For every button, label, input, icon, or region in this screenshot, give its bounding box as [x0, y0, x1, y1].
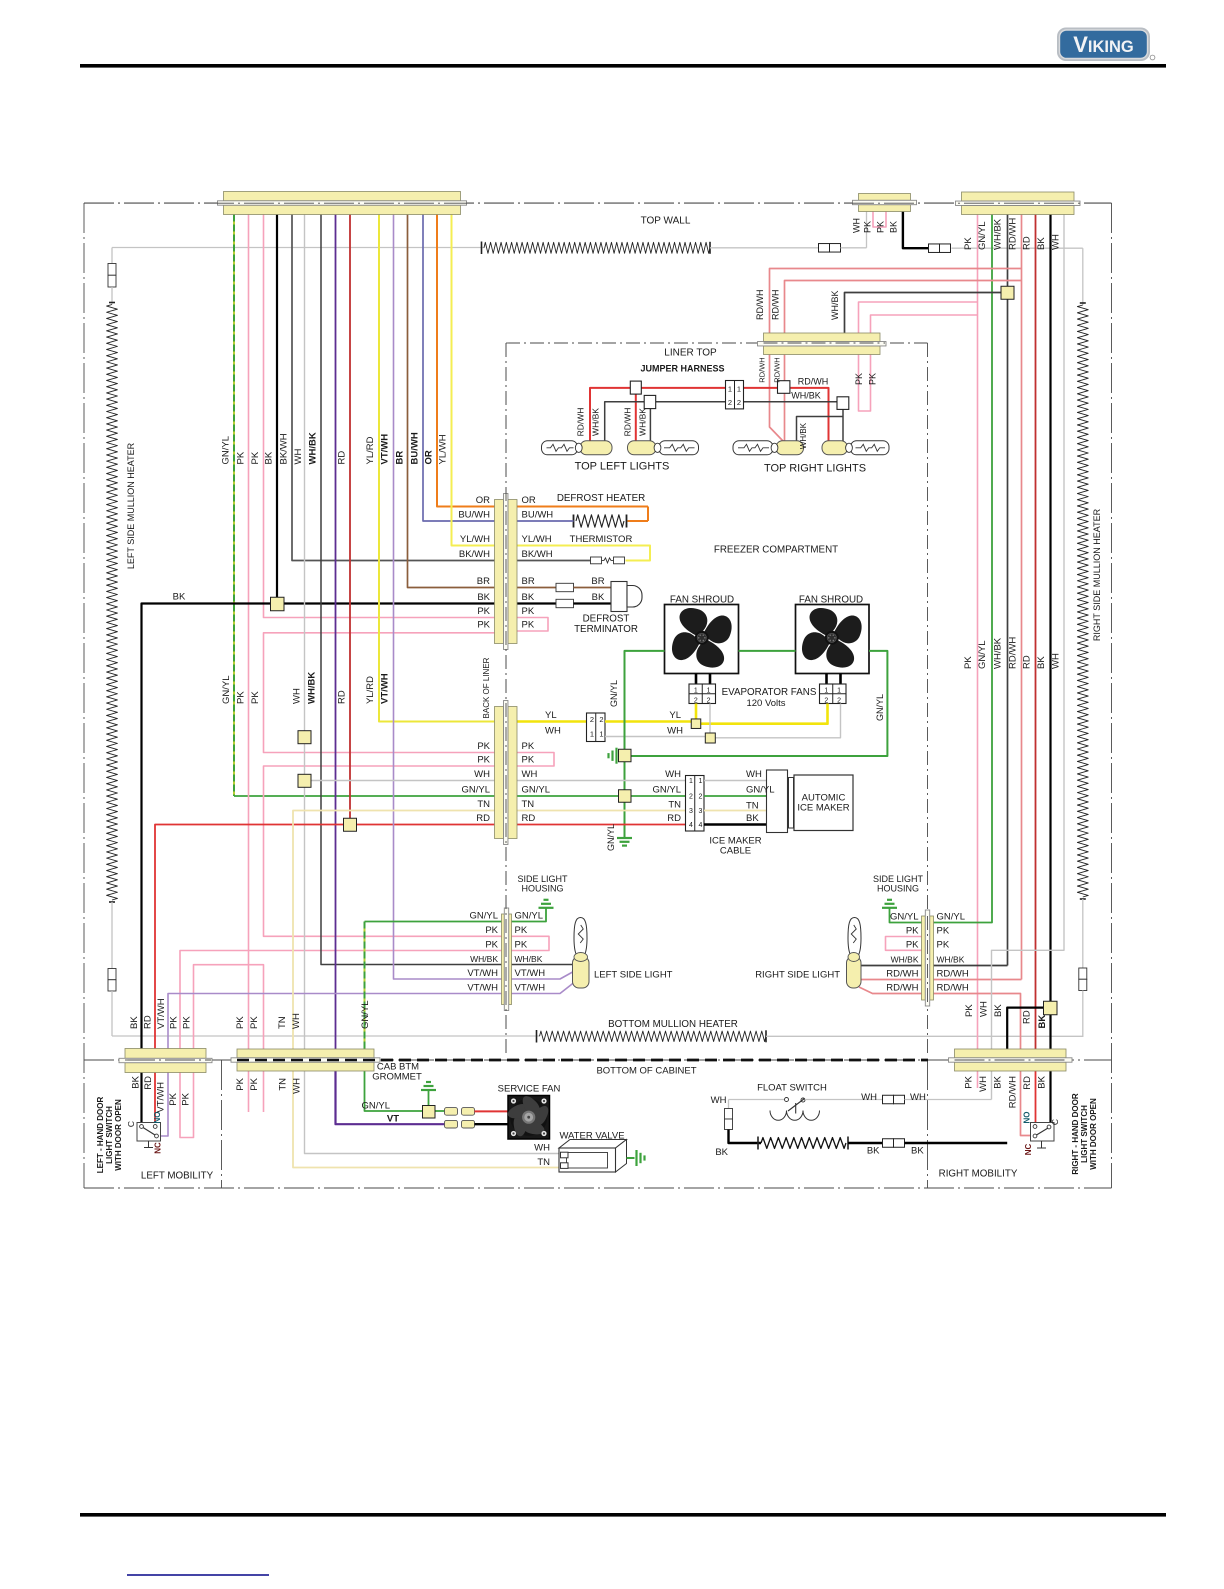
svg-text:WH: WH: [522, 769, 538, 780]
svg-text:YL/WH: YL/WH: [460, 534, 490, 545]
svg-text:GN/YL: GN/YL: [609, 680, 619, 707]
svg-text:GN/YL: GN/YL: [522, 785, 551, 796]
svg-text:RIGHT SIDE MULLION HEATER: RIGHT SIDE MULLION HEATER: [1092, 508, 1102, 641]
svg-text:1: 1: [824, 688, 828, 695]
svg-text:YL: YL: [545, 710, 557, 721]
svg-text:C: C: [126, 1121, 136, 1127]
svg-text:TN: TN: [477, 799, 490, 810]
svg-text:2: 2: [837, 697, 841, 704]
svg-text:WH/BK: WH/BK: [515, 954, 543, 964]
svg-text:DEFROST: DEFROST: [583, 614, 630, 625]
svg-text:GN/YL: GN/YL: [977, 221, 988, 250]
svg-text:WH/BK: WH/BK: [307, 672, 318, 704]
svg-text:WH/BK: WH/BK: [470, 954, 498, 964]
svg-text:1: 1: [737, 385, 741, 394]
svg-text:WH: WH: [861, 1092, 877, 1103]
svg-text:WH: WH: [910, 1092, 926, 1103]
svg-text:VT/WH: VT/WH: [156, 1082, 167, 1113]
svg-text:2: 2: [707, 697, 711, 704]
svg-text:BU/WH: BU/WH: [410, 432, 421, 464]
svg-text:RD: RD: [1022, 655, 1033, 669]
svg-text:PK: PK: [236, 451, 247, 464]
svg-text:2: 2: [728, 398, 732, 407]
svg-text:WATER VALVE: WATER VALVE: [559, 1131, 624, 1142]
svg-text:NO: NO: [1023, 1112, 1032, 1124]
svg-text:1: 1: [599, 730, 603, 739]
svg-text:PK: PK: [876, 221, 886, 233]
svg-text:RD: RD: [1022, 1076, 1033, 1090]
svg-text:PK: PK: [235, 1016, 246, 1029]
svg-text:LINER TOP: LINER TOP: [664, 348, 717, 359]
svg-text:GN/YL: GN/YL: [515, 911, 544, 922]
svg-text:TN: TN: [668, 800, 681, 811]
svg-text:PK: PK: [250, 691, 261, 704]
svg-text:VT/WH: VT/WH: [380, 434, 391, 465]
svg-text:WH: WH: [545, 726, 561, 737]
svg-text:PK: PK: [485, 940, 498, 951]
svg-text:WH/BK: WH/BK: [830, 290, 840, 320]
svg-text:YL/WH: YL/WH: [522, 534, 552, 545]
svg-text:3: 3: [689, 808, 693, 815]
svg-text:WH: WH: [534, 1143, 550, 1154]
svg-text:RD: RD: [337, 690, 348, 704]
svg-text:BR: BR: [395, 451, 406, 465]
svg-text:PK: PK: [854, 373, 864, 385]
svg-text:PK: PK: [249, 1077, 260, 1090]
svg-text:2: 2: [694, 697, 698, 704]
svg-text:BK/WH: BK/WH: [279, 433, 290, 464]
svg-text:WITH DOOR OPEN: WITH DOOR OPEN: [114, 1099, 123, 1171]
svg-text:WH: WH: [1051, 653, 1062, 669]
svg-text:GN/YL: GN/YL: [746, 785, 775, 796]
svg-text:BK: BK: [867, 1146, 880, 1157]
svg-text:PK: PK: [169, 1016, 180, 1029]
svg-text:GN/YL: GN/YL: [875, 694, 885, 721]
svg-text:WH: WH: [852, 218, 862, 233]
svg-text:1: 1: [590, 730, 594, 739]
svg-text:WH: WH: [293, 449, 304, 465]
svg-text:2: 2: [689, 794, 693, 801]
svg-text:WH: WH: [665, 769, 681, 780]
svg-text:120 Volts: 120 Volts: [746, 698, 785, 709]
svg-text:WH: WH: [292, 688, 303, 704]
svg-text:WH: WH: [291, 1013, 302, 1029]
svg-text:TOP LEFT LIGHTS: TOP LEFT LIGHTS: [575, 461, 670, 473]
svg-text:C: C: [1050, 1119, 1060, 1125]
svg-text:RD: RD: [476, 813, 490, 824]
svg-text:TERMINATOR: TERMINATOR: [574, 624, 638, 635]
svg-text:RD: RD: [667, 813, 681, 824]
svg-text:WH: WH: [667, 726, 683, 737]
svg-text:BK: BK: [131, 1075, 142, 1088]
svg-text:RIGHT - HAND DOOR: RIGHT - HAND DOOR: [1071, 1093, 1080, 1175]
svg-text:NC: NC: [154, 1142, 163, 1154]
svg-text:1: 1: [728, 385, 732, 394]
svg-text:BU/WH: BU/WH: [522, 510, 554, 521]
svg-text:2: 2: [824, 697, 828, 704]
svg-text:GN/YL: GN/YL: [361, 1101, 390, 1112]
svg-text:1: 1: [689, 778, 693, 785]
svg-text:BR: BR: [591, 576, 604, 587]
svg-text:RD/WH: RD/WH: [937, 969, 969, 980]
svg-text:WH/BK: WH/BK: [799, 422, 808, 449]
svg-text:2: 2: [599, 715, 603, 724]
svg-text:1: 1: [837, 688, 841, 695]
svg-text:WH: WH: [1051, 234, 1062, 250]
svg-text:4: 4: [699, 822, 703, 829]
svg-text:GN/YL: GN/YL: [360, 1000, 371, 1029]
svg-text:PK: PK: [250, 451, 261, 464]
svg-text:PK: PK: [235, 1077, 246, 1090]
svg-text:VT/WH: VT/WH: [156, 998, 167, 1029]
svg-text:BK: BK: [264, 451, 275, 464]
svg-text:TN: TN: [278, 1078, 289, 1091]
svg-text:PK: PK: [182, 1016, 193, 1029]
svg-text:RD/WH: RD/WH: [576, 408, 586, 437]
svg-text:BK: BK: [1036, 237, 1047, 250]
svg-text:OR: OR: [476, 495, 490, 506]
svg-text:GROMMET: GROMMET: [372, 1072, 422, 1083]
svg-text:WH/BK: WH/BK: [993, 637, 1004, 669]
svg-text:PK: PK: [249, 1016, 260, 1029]
svg-text:PK: PK: [477, 755, 490, 766]
svg-text:PK: PK: [485, 925, 498, 936]
svg-text:RD/WH: RD/WH: [937, 983, 969, 994]
svg-text:WH: WH: [474, 769, 490, 780]
svg-text:WH/BK: WH/BK: [791, 391, 821, 401]
svg-text:BK: BK: [129, 1016, 140, 1029]
svg-text:2: 2: [737, 398, 741, 407]
svg-text:PK: PK: [477, 606, 490, 617]
svg-text:BK: BK: [522, 592, 535, 603]
svg-text:PK: PK: [522, 620, 535, 631]
svg-text:PK: PK: [906, 940, 919, 951]
svg-text:YL/WH: YL/WH: [438, 434, 449, 464]
svg-text:PK: PK: [937, 940, 950, 951]
svg-text:PK: PK: [515, 940, 528, 951]
svg-text:WH/BK: WH/BK: [891, 955, 919, 965]
svg-text:TN: TN: [522, 799, 535, 810]
svg-text:BK: BK: [1037, 1075, 1048, 1088]
svg-text:RD: RD: [522, 813, 536, 824]
svg-text:TOP RIGHT LIGHTS: TOP RIGHT LIGHTS: [764, 463, 866, 475]
svg-text:PK: PK: [963, 237, 974, 250]
svg-text:2: 2: [699, 794, 703, 801]
svg-text:LEFT SIDE MULLION HEATER: LEFT SIDE MULLION HEATER: [126, 442, 136, 569]
svg-text:FAN SHROUD: FAN SHROUD: [799, 595, 863, 606]
svg-text:RD: RD: [337, 451, 348, 465]
svg-text:DEFROST HEATER: DEFROST HEATER: [557, 493, 645, 504]
svg-text:BOTTOM OF CABINET: BOTTOM OF CABINET: [596, 1066, 696, 1077]
svg-text:RD: RD: [143, 1015, 154, 1029]
svg-text:PK: PK: [522, 606, 535, 617]
svg-text:RIGHT MOBILITY: RIGHT MOBILITY: [939, 1169, 1018, 1180]
svg-text:RD/WH: RD/WH: [798, 377, 829, 387]
svg-text:LEFT MOBILITY: LEFT MOBILITY: [141, 1171, 214, 1182]
svg-text:GN/YL: GN/YL: [977, 640, 988, 669]
svg-text:LEFT - HAND DOOR: LEFT - HAND DOOR: [96, 1097, 105, 1174]
svg-text:BOTTOM MULLION HEATER: BOTTOM MULLION HEATER: [608, 1019, 738, 1030]
svg-text:RD: RD: [143, 1076, 154, 1090]
svg-text:BK: BK: [477, 592, 490, 603]
svg-text:RD/WH: RD/WH: [1008, 1076, 1019, 1108]
svg-text:FREEZER COMPARTMENT: FREEZER COMPARTMENT: [714, 545, 838, 556]
svg-text:BR: BR: [522, 576, 535, 587]
svg-text:RD/WH: RD/WH: [755, 290, 765, 321]
svg-text:PK: PK: [937, 926, 950, 937]
svg-text:SIDE LIGHT: SIDE LIGHT: [873, 874, 924, 884]
svg-text:OR: OR: [522, 495, 536, 506]
svg-text:VT/WH: VT/WH: [515, 983, 546, 994]
svg-text:GN/YL: GN/YL: [461, 785, 490, 796]
svg-text:TN: TN: [746, 801, 759, 812]
svg-text:BK/WH: BK/WH: [522, 549, 553, 560]
svg-text:RD: RD: [1022, 1010, 1033, 1024]
svg-text:PK: PK: [868, 373, 878, 385]
svg-text:PK: PK: [863, 221, 873, 233]
svg-text:HOUSING: HOUSING: [877, 884, 919, 894]
svg-text:RD/WH: RD/WH: [623, 408, 633, 437]
svg-text:GN/YL: GN/YL: [890, 912, 919, 923]
svg-text:GN/YL: GN/YL: [221, 675, 232, 704]
svg-text:RD/WH: RD/WH: [886, 969, 918, 980]
svg-text:PK: PK: [964, 1075, 975, 1088]
svg-text:YL/RD: YL/RD: [365, 436, 376, 464]
svg-text:RD/WH: RD/WH: [758, 357, 767, 382]
svg-text:RD: RD: [1022, 236, 1033, 250]
svg-text:BK: BK: [993, 1075, 1004, 1088]
svg-text:PK: PK: [906, 926, 919, 937]
svg-text:RD/WH: RD/WH: [773, 357, 782, 382]
svg-text:PK: PK: [477, 620, 490, 631]
svg-text:WH/BK: WH/BK: [638, 408, 648, 436]
svg-text:1: 1: [694, 688, 698, 695]
svg-text:NC: NC: [1024, 1144, 1033, 1156]
svg-text:RD/WH: RD/WH: [1008, 637, 1019, 669]
svg-text:WITH DOOR OPEN: WITH DOOR OPEN: [1089, 1098, 1098, 1170]
svg-text:BK: BK: [911, 1146, 924, 1157]
svg-text:VT/WH: VT/WH: [380, 673, 391, 704]
svg-text:LIGHT SWITCH: LIGHT SWITCH: [1080, 1105, 1089, 1163]
svg-text:PK: PK: [522, 755, 535, 766]
svg-text:PK: PK: [963, 656, 974, 669]
svg-text:RD/WH: RD/WH: [886, 983, 918, 994]
svg-text:GN/YL: GN/YL: [606, 824, 616, 851]
svg-text:PK: PK: [522, 741, 535, 752]
svg-text:BK/WH: BK/WH: [459, 549, 490, 560]
svg-text:TN: TN: [277, 1016, 288, 1029]
svg-text:EVAPORATOR FANS: EVAPORATOR FANS: [722, 687, 817, 698]
svg-text:RIGHT SIDE LIGHT: RIGHT SIDE LIGHT: [755, 970, 840, 981]
svg-text:WH: WH: [978, 1076, 989, 1092]
svg-text:SERVICE FAN: SERVICE FAN: [498, 1084, 561, 1095]
svg-text:FLOAT SWITCH: FLOAT SWITCH: [757, 1083, 827, 1094]
svg-text:VT: VT: [387, 1114, 399, 1125]
svg-text:1: 1: [707, 688, 711, 695]
svg-text:WH: WH: [979, 1001, 990, 1017]
svg-text:1: 1: [699, 778, 703, 785]
svg-text:SIDE LIGHT: SIDE LIGHT: [517, 874, 568, 884]
svg-text:BK: BK: [1036, 656, 1047, 669]
svg-text:GN/YL: GN/YL: [469, 911, 498, 922]
svg-text:LIGHT SWITCH: LIGHT SWITCH: [105, 1106, 114, 1164]
svg-text:JUMPER HARNESS: JUMPER HARNESS: [640, 364, 724, 374]
svg-text:BR: BR: [477, 576, 490, 587]
svg-text:VT/WH: VT/WH: [515, 968, 546, 979]
svg-text:WH/BK: WH/BK: [591, 408, 601, 436]
svg-text:PK: PK: [477, 741, 490, 752]
svg-text:HOUSING: HOUSING: [521, 884, 563, 894]
svg-text:PK: PK: [515, 925, 528, 936]
svg-text:WH: WH: [292, 1078, 303, 1094]
svg-text:TOP WALL: TOP WALL: [641, 216, 691, 227]
svg-text:PK: PK: [964, 1004, 975, 1017]
svg-text:GN/YL: GN/YL: [937, 912, 966, 923]
svg-text:BK: BK: [993, 1004, 1004, 1017]
svg-text:PK: PK: [236, 691, 247, 704]
svg-text:GN/YL: GN/YL: [221, 436, 232, 465]
svg-text:WH/BK: WH/BK: [993, 218, 1004, 250]
svg-text:BK: BK: [746, 813, 759, 824]
svg-text:FAN SHROUD: FAN SHROUD: [670, 595, 734, 606]
svg-text:BK: BK: [1037, 1015, 1048, 1029]
svg-text:BK: BK: [889, 221, 899, 233]
svg-text:YL: YL: [669, 710, 681, 721]
svg-text:3: 3: [699, 808, 703, 815]
svg-text:4: 4: [689, 822, 693, 829]
svg-text:BU/WH: BU/WH: [458, 510, 490, 521]
svg-text:VT/WH: VT/WH: [467, 968, 498, 979]
svg-text:WH: WH: [746, 769, 762, 780]
svg-text:LEFT SIDE LIGHT: LEFT SIDE LIGHT: [594, 970, 673, 981]
svg-text:GN/YL: GN/YL: [652, 785, 681, 796]
svg-text:TN: TN: [537, 1157, 550, 1168]
svg-text:WH: WH: [711, 1095, 727, 1106]
svg-text:RD/WH: RD/WH: [771, 290, 781, 321]
svg-text:THERMISTOR: THERMISTOR: [570, 534, 633, 545]
svg-text:BK: BK: [592, 592, 605, 603]
svg-text:WH/BK: WH/BK: [308, 432, 319, 464]
svg-text:WH/BK: WH/BK: [937, 955, 965, 965]
svg-text:PK: PK: [181, 1092, 192, 1105]
svg-text:BK: BK: [715, 1147, 728, 1158]
svg-text:ICE MAKER: ICE MAKER: [797, 803, 849, 814]
svg-text:CABLE: CABLE: [720, 846, 751, 857]
svg-text:2: 2: [590, 715, 594, 724]
svg-text:RD/WH: RD/WH: [1008, 218, 1019, 250]
svg-text:OR: OR: [424, 450, 435, 464]
svg-text:YL/RD: YL/RD: [365, 676, 376, 704]
svg-text:VT/WH: VT/WH: [467, 983, 498, 994]
svg-text:BACK OF LINER: BACK OF LINER: [482, 657, 491, 718]
svg-text:BK: BK: [173, 592, 186, 603]
svg-text:PK: PK: [168, 1092, 179, 1105]
